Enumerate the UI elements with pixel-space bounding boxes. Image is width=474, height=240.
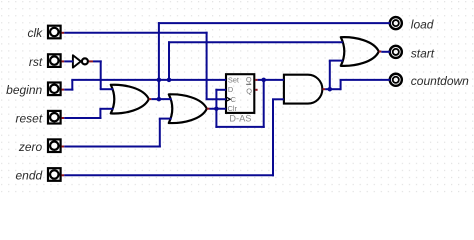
red stub at beginn pin bbox=[62, 89, 65, 91]
wire into FF pin D bbox=[215, 89, 226, 91]
OR gate OR1 (beginn/reset block) bbox=[111, 85, 149, 114]
svg-text:clk: clk bbox=[28, 26, 44, 40]
wire load riser vertical bbox=[158, 22, 160, 99]
red stub OR1 output bbox=[149, 98, 152, 100]
svg-text:beginn: beginn bbox=[6, 83, 42, 97]
svg-text:endd: endd bbox=[15, 169, 42, 183]
wire into OR1 upper input bbox=[100, 88, 114, 90]
svg-text:D-AS: D-AS bbox=[229, 114, 251, 124]
wire clk vertical down bbox=[206, 32, 208, 99]
red stub FF output Q bbox=[255, 79, 257, 81]
wire beginn vertical up bbox=[71, 80, 73, 91]
red stub FF output Q-bar bbox=[255, 89, 257, 91]
wire into OR3 lower input bbox=[329, 60, 343, 62]
wire endd vertical up bbox=[272, 99, 274, 176]
wire OR3 output to start pin bbox=[381, 51, 390, 53]
wire reset vertical up bbox=[99, 109, 101, 119]
wire countdown horizontal bbox=[340, 79, 391, 81]
wire inverter output vertical down bbox=[100, 60, 102, 89]
wire OR2 output into FF pin Clr bbox=[210, 108, 227, 110]
svg-text:D: D bbox=[228, 85, 233, 94]
red stub AND output bbox=[322, 88, 325, 90]
wire riser to OR3 lower input bbox=[329, 61, 331, 90]
svg-text:reset: reset bbox=[16, 111, 43, 125]
wire rst to inverter bbox=[64, 60, 73, 62]
red stub at rst pin bbox=[62, 60, 65, 62]
AND gate bbox=[284, 75, 322, 104]
node: junction AND-output / OR3 riser bbox=[328, 87, 333, 92]
red stub inverter output bbox=[89, 60, 93, 62]
output pin countdown bbox=[390, 74, 402, 86]
svg-text:Set: Set bbox=[228, 76, 239, 85]
svg-text:load: load bbox=[411, 18, 434, 32]
flip-flop U1 D-AS box bbox=[226, 74, 254, 113]
input pin zero bbox=[48, 139, 61, 152]
input pin beginn bbox=[48, 83, 61, 96]
wire countdown riser bbox=[340, 80, 342, 90]
input pin endd bbox=[48, 168, 61, 181]
wire AND output horizontal bbox=[325, 88, 341, 90]
input pin reset bbox=[48, 111, 61, 124]
wire into OR1 lower input bbox=[99, 108, 113, 110]
wire FF Q to AND upper input bbox=[258, 79, 284, 81]
svg-text:start: start bbox=[411, 46, 435, 60]
svg-text:rst: rst bbox=[29, 55, 43, 69]
wire riser to OR3 rail bbox=[168, 41, 170, 80]
node: junction Set-rail / load riser bbox=[157, 78, 162, 83]
wire clk into FF pin C bbox=[206, 98, 226, 100]
node: junction Clr / D feedback riser bbox=[214, 106, 219, 111]
wire zero horizontal bbox=[64, 146, 161, 148]
input pin clk bbox=[48, 26, 61, 39]
wire rail to OR3 upper input bbox=[168, 41, 343, 43]
wire reset horizontal bbox=[64, 117, 101, 119]
node: junction Set-rail / OR3 riser bbox=[167, 78, 172, 83]
wire inverter output horizontal bbox=[93, 60, 102, 62]
wire beginn to FF pin Set bbox=[71, 79, 226, 81]
red stub at clk pin bbox=[62, 32, 65, 34]
svg-text:C: C bbox=[231, 95, 237, 104]
node: junction OR1-output / load riser bbox=[157, 97, 162, 102]
wire into AND lower input bbox=[272, 98, 284, 100]
input pin rst bbox=[48, 54, 61, 67]
wire endd horizontal bbox=[64, 174, 274, 176]
output pin start bbox=[390, 46, 402, 58]
wire clk horizontal bbox=[64, 32, 207, 34]
svg-text:Q: Q bbox=[246, 86, 252, 95]
wire feedback right vertical to Q bbox=[263, 80, 265, 128]
wire feedback bottom horizontal bbox=[215, 126, 264, 128]
wire into OR2 lower input bbox=[159, 118, 172, 120]
wire feedback vertical bbox=[215, 89, 217, 128]
red stub OR2 output bbox=[207, 108, 210, 110]
OR gate OR2 bbox=[169, 94, 207, 123]
red stub at zero pin bbox=[62, 146, 65, 148]
clock input triangle on pin C bbox=[226, 97, 230, 101]
OR gate OR3 (start) bbox=[341, 37, 379, 66]
red stub OR3 output bbox=[379, 51, 382, 53]
inverter (NOT gate) after rst bbox=[73, 55, 81, 67]
output pin load bbox=[390, 17, 402, 29]
node: junction Q / feedback bbox=[261, 78, 266, 83]
red stub at reset pin bbox=[62, 117, 65, 119]
wire beginn stub bbox=[64, 89, 73, 91]
wire OR1 output to OR2 upper input bbox=[151, 98, 171, 100]
svg-text:zero: zero bbox=[18, 140, 43, 154]
svg-text:Q: Q bbox=[246, 75, 252, 84]
wire zero vertical up bbox=[159, 119, 161, 148]
red stub at endd pin bbox=[62, 174, 65, 176]
wire load horizontal rail bbox=[158, 22, 390, 24]
svg-text:countdown: countdown bbox=[411, 74, 469, 88]
svg-text:Clr: Clr bbox=[228, 104, 238, 113]
